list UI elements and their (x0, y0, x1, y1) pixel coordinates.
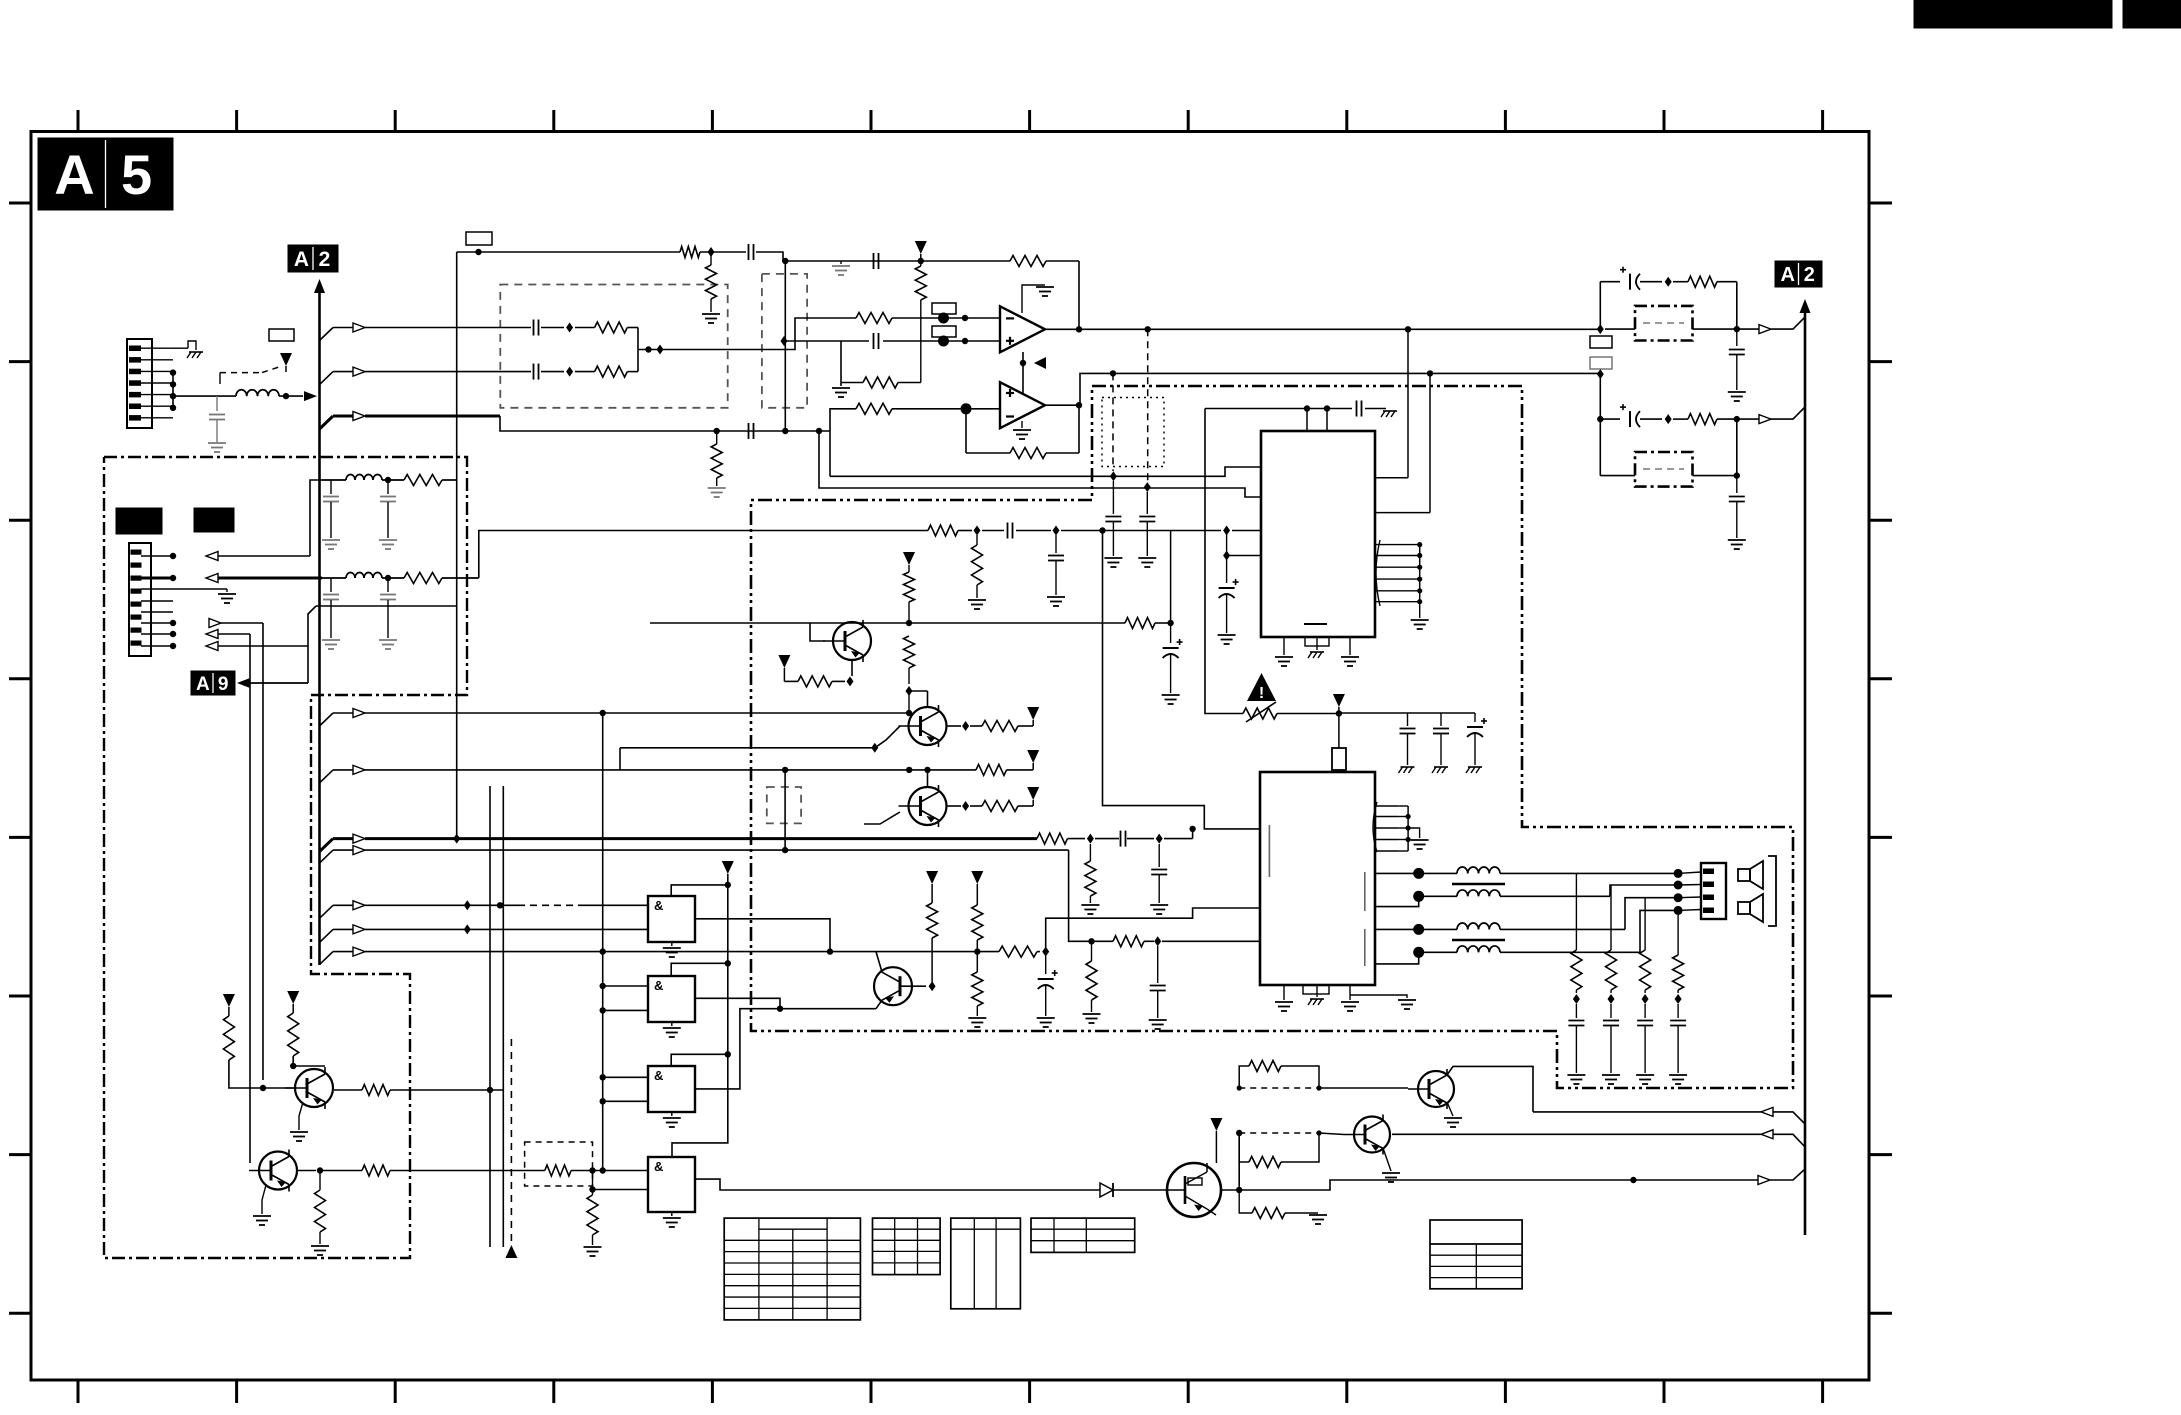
wire to opamp minus (638, 318, 856, 355)
transistor Q4 (874, 967, 926, 1005)
wire caps rail (1339, 712, 1475, 714)
resistor R11 (928, 525, 972, 536)
vertical link x=1170 (1170, 531, 1172, 624)
capacitor C21 (1728, 476, 1746, 549)
supply arrow (287, 991, 299, 1013)
sheet label A5 (38, 138, 173, 210)
resistor R20 (1037, 833, 1068, 844)
J2 pin6 wire (141, 619, 263, 1081)
J2 pin3 ground (141, 589, 236, 603)
wire row 4 (320, 846, 1114, 945)
diamond node (1665, 277, 1672, 287)
vertical link (782, 770, 788, 853)
diamond node (1597, 369, 1604, 379)
wire row A from bus (320, 323, 532, 341)
transistor Q8 (1408, 1069, 1454, 1109)
svg-text:2: 2 (319, 248, 331, 271)
gate3 input stub (600, 1074, 649, 1104)
resistor R18 (404, 573, 479, 584)
IC1 second left pin (1223, 531, 1261, 584)
wire to U4 upper (1046, 908, 1260, 952)
wire A9 spine (308, 606, 457, 646)
connector J2 (129, 543, 151, 656)
warning triangle (1247, 673, 1276, 702)
Q3 collector out (947, 801, 982, 811)
line out 1 (1533, 1107, 1805, 1124)
transistor Q9 (1344, 1115, 1390, 1155)
J2 pin2 wire (thick) (141, 574, 322, 583)
wire U2 output (1045, 370, 1600, 405)
G2 strobe wire (671, 963, 728, 976)
arrow out R (1759, 407, 1805, 424)
wire row 6 (320, 924, 649, 942)
lower branch (1597, 374, 1620, 422)
Q5 emitter ground (290, 1102, 308, 1141)
capacitor C10 (982, 523, 1051, 539)
resistor R17 (404, 475, 457, 486)
resistor R24 (982, 801, 1033, 812)
wire J1 output (173, 395, 303, 397)
diamond node (1053, 526, 1060, 536)
supply arrow into U4 (1333, 694, 1345, 748)
shield dotted box (1102, 398, 1164, 467)
wire to row1 (908, 691, 910, 713)
svg-text:A: A (294, 248, 309, 271)
wire (1068, 838, 1120, 840)
table T2 (873, 1218, 941, 1275)
audio region boundary (dash-dot-dot) (751, 386, 1793, 1088)
wire row C to U2 minus (830, 409, 856, 431)
IC U3 (1261, 431, 1375, 637)
op-amp U1 (1000, 306, 1045, 352)
G3 output wire (695, 1009, 876, 1089)
capacitor C25 (379, 578, 397, 649)
resistor R6 (575, 366, 638, 377)
power transistor Q7 (1167, 1163, 1221, 1217)
bias feed line (1205, 409, 1243, 714)
diamond node (1156, 834, 1163, 844)
wire row E to U3 pin2 (819, 431, 1261, 497)
table T5 (1430, 1220, 1522, 1289)
wire to A9 (307, 646, 309, 683)
J2 pin8 wire (141, 642, 308, 651)
value box VB4 (932, 326, 956, 337)
capacitor C16 (1432, 713, 1449, 773)
capacitor C19 (1728, 329, 1746, 401)
svg-text:A: A (196, 674, 210, 695)
dashed drop x=1147 (1147, 329, 1149, 482)
supply chain x=909 (903, 552, 915, 623)
supply arrow (778, 655, 790, 681)
ground G3 (663, 1112, 681, 1127)
dashed drop x=1113 (1112, 373, 1114, 471)
capacitor C23 (379, 480, 397, 549)
wire row 2 (320, 765, 977, 783)
resistor R29 (1113, 936, 1154, 947)
capacitor C9 (1138, 492, 1156, 567)
op-amp U2 (1000, 382, 1045, 428)
capacitor C4 (534, 320, 565, 336)
svg-text:!: ! (1259, 685, 1264, 702)
vertical spine x=457 (453, 252, 460, 844)
filter FL1 (1635, 306, 1693, 341)
supply chain R25 (926, 871, 938, 981)
output inductor L5 (1424, 946, 1640, 952)
J2 pin5 wire (141, 611, 173, 613)
capacitor C13 electrolytic (1162, 623, 1183, 704)
supply chain R26 (971, 871, 983, 972)
resistor R13 (1125, 618, 1155, 629)
decoupling C14 (1357, 401, 1398, 418)
bias pointer (1020, 352, 1046, 393)
diamond node (1665, 414, 1672, 424)
label A9 (191, 671, 235, 695)
vertical to bias (840, 341, 842, 386)
ground at U1 (1022, 285, 1054, 313)
table T3 (951, 1218, 1021, 1309)
dashed box group 1 (500, 285, 727, 408)
resistor R1 (680, 247, 700, 258)
diamond node (1110, 471, 1117, 481)
wire to U4 (1164, 826, 1196, 839)
filter FL2 (1635, 452, 1693, 487)
vertical pair x=503 (502, 786, 504, 1247)
U3 right pin a (1375, 329, 1408, 478)
Q5 output (334, 1089, 362, 1091)
redacted box 1 (116, 508, 162, 534)
resistor R19 (976, 764, 1033, 775)
resistor R30 (223, 1016, 294, 1091)
Q6 emitter ground (253, 1185, 271, 1225)
speaker bracket (1768, 856, 1776, 926)
diamond node (566, 367, 573, 377)
diamond node (1597, 324, 1604, 334)
supply arrow (1027, 750, 1039, 770)
capacitor C28 electrolytic (1037, 956, 1058, 1027)
ground G1 (663, 942, 681, 957)
gate4 input stub (589, 1186, 648, 1192)
speaker icon 2 (1738, 894, 1763, 922)
J2 pin7 wire (141, 630, 250, 1164)
bottom tick marks (78, 1380, 1823, 1403)
resistor R21 to ground (1081, 844, 1099, 914)
supply arrow (223, 994, 235, 1016)
resistor R15 (1673, 276, 1737, 329)
table T4 (1031, 1218, 1135, 1252)
resistor R36b to ground (584, 1171, 602, 1257)
IC U4 (1260, 772, 1375, 985)
capacitor C15 (1399, 713, 1416, 773)
wire row 3 (thick) (320, 834, 1038, 852)
resistor R16 (1673, 414, 1759, 425)
load RC chain 3 (1636, 898, 1654, 1084)
chassis ground at J1 (173, 341, 203, 358)
supply arrow (1027, 787, 1039, 806)
feedback resistor R10 (966, 402, 1082, 459)
capacitor C1 (209, 396, 225, 443)
svg-text:2: 2 (1804, 264, 1815, 286)
line out 3 (1239, 1169, 1805, 1190)
vertical pair x=490 (489, 786, 491, 1247)
diamond node (708, 247, 715, 257)
net A2 right bus (1800, 299, 1811, 1235)
capacitor C26 (1121, 831, 1155, 847)
wire through FL2 (1600, 419, 1740, 479)
line out 2 (1392, 1130, 1805, 1147)
resistor R23 (982, 721, 1033, 732)
J2 pin1 wire (141, 480, 322, 561)
U4 aux pins to ground (1373, 802, 1429, 852)
resistor R31 (288, 1013, 325, 1069)
capacitor C8 (1104, 481, 1122, 567)
label A2 right (1775, 261, 1822, 287)
supply arrow (1027, 707, 1039, 726)
resistor R38 dashed pair B (1239, 1130, 1321, 1167)
diamond node (1087, 834, 1094, 844)
load RC chain 1 (1567, 873, 1585, 1084)
ground C1 (208, 443, 226, 452)
vertical spine x=785 (784, 258, 786, 431)
pull-up arrow (672, 861, 734, 1157)
capacitor C24 (322, 578, 340, 649)
diamond node (1042, 947, 1049, 957)
Q1 emitter link (851, 660, 853, 676)
resistor R12 to ground (968, 535, 986, 609)
label A2 left (288, 245, 338, 272)
load RC chain 4 (1669, 910, 1687, 1084)
black header bar 1 (1914, 0, 2112, 28)
connector J1 (127, 339, 173, 428)
capacitor C6 (749, 423, 754, 439)
value box VB3 (932, 303, 956, 314)
wire row D to U3 pin1 (830, 467, 1261, 476)
black header bar 2 (2123, 0, 2181, 28)
right tick marks (1869, 203, 1892, 1313)
Q4 collector link (876, 952, 882, 972)
feedback resistor R4 (1010, 256, 1079, 330)
resistor R5 (575, 322, 638, 333)
ground G4 (663, 1212, 681, 1227)
speaker wire 4 (1640, 906, 1701, 952)
Q8 collector wire (1447, 1066, 1533, 1112)
resistor R33 (362, 1165, 606, 1176)
capacitor C20 electrolytic (1620, 404, 1662, 427)
ground tap (832, 261, 850, 275)
svg-text:A: A (54, 143, 94, 206)
and-gate G2 (648, 976, 695, 1022)
wire row 5 (320, 900, 649, 918)
resistor R27 to ground (968, 972, 986, 1027)
output inductor L4 (1424, 923, 1625, 940)
resistor R28 (977, 946, 1040, 957)
resistor R37 dashed pair A (1237, 1061, 1322, 1091)
wire row 1 (320, 709, 913, 727)
Q2 top link (909, 691, 928, 707)
supply arrow V1 (280, 353, 292, 372)
U4 top pin box (1332, 748, 1346, 770)
value box VB2 (466, 232, 492, 245)
capacitor C5 (534, 364, 565, 380)
and-gate G4 (648, 1157, 695, 1212)
diamond node (566, 323, 573, 333)
capacitor C27 to ground (1150, 844, 1168, 914)
speaker wire 3 (1625, 893, 1701, 929)
ground (832, 388, 850, 397)
and-gate G1 (648, 896, 695, 942)
Q3 base wire (864, 812, 900, 824)
wire row F (479, 531, 928, 579)
capacitor C29 to ground (1149, 946, 1167, 1029)
svg-text:9: 9 (218, 674, 229, 695)
wire top chain (457, 249, 1079, 264)
Q2 collector out (947, 721, 982, 731)
value box VB1 (269, 329, 294, 341)
capacitor C2 (749, 244, 754, 260)
transistor Q5 (285, 1067, 333, 1109)
capacitor C3 (874, 253, 879, 269)
G1 strobe wire (671, 885, 728, 896)
U3 right pin bus to ground (1375, 540, 1429, 629)
Q6 output (298, 1167, 362, 1173)
transistor Q2 (899, 705, 947, 747)
LC row 2 (322, 573, 404, 582)
variable resistor RV1 (1243, 702, 1342, 722)
transistor Q3 (899, 785, 947, 827)
wire to Q9 (1319, 1133, 1344, 1135)
Q1 base wire (810, 623, 825, 641)
diamond node (1223, 526, 1230, 536)
U3 right pin b (1375, 373, 1430, 512)
resistor R35 in dashed box (525, 1142, 648, 1186)
U3 bottom grounds (1275, 637, 1359, 666)
wire plus input (784, 336, 1000, 347)
wire G4 output (695, 1179, 1100, 1190)
svg-text:&: & (654, 898, 663, 913)
inductor L1 (236, 390, 279, 396)
speaker icon 1 (1738, 861, 1763, 889)
supply arrow V2 (915, 241, 927, 261)
border frame (31, 132, 1869, 1381)
upper branch (1600, 282, 1620, 329)
resistor R32 (362, 1085, 503, 1096)
wire row F drop to U4 (1103, 531, 1261, 829)
wire through FL1 (1605, 326, 1759, 332)
arrow out L (1759, 317, 1805, 334)
capacitor C17 electrolytic (1466, 713, 1487, 773)
Q4 emitter link (876, 1000, 882, 1009)
value box VB6 (1590, 357, 1612, 369)
junction dots J1 (170, 369, 176, 411)
LC row 1 (322, 475, 404, 484)
resistor R22 (784, 676, 853, 687)
dashed box group 2 (762, 274, 807, 408)
resistor R14 (904, 636, 915, 684)
diamond node (906, 686, 913, 696)
arrow into A9 (237, 678, 308, 688)
Q7 out node (1221, 1130, 1242, 1193)
value box VB5 (1590, 336, 1612, 348)
diamond node (1144, 482, 1151, 492)
wire row 7 (320, 947, 981, 1170)
svg-text:A: A (1780, 264, 1794, 286)
resistor R2 to ground (702, 252, 720, 323)
svg-text:&: & (654, 1068, 663, 1083)
ground at U2 (1013, 421, 1031, 439)
wire row1 drop (602, 713, 604, 952)
output inductor L2 (1424, 867, 1540, 884)
U4 bottom grounds (1275, 985, 1416, 1011)
wire row B from bus (320, 367, 532, 385)
left tick marks (9, 203, 31, 1313)
top tick marks (78, 110, 1823, 132)
net A2 left bus (314, 279, 325, 965)
wire VCC top (1205, 405, 1352, 431)
ground G2 (663, 1022, 681, 1037)
digital region boundary (dash-dot) (104, 457, 467, 1258)
connector J3 speakers (1701, 863, 1726, 919)
dashed pull line (505, 1039, 517, 1258)
diamond node (974, 526, 981, 536)
G2 output wire (695, 998, 783, 1012)
redacted box 2 (194, 508, 234, 532)
U4 output pins (1375, 868, 1424, 964)
Q8 emitter ground (1444, 1102, 1462, 1127)
capacitor C18 electrolytic (1620, 267, 1662, 290)
svg-text:&: & (654, 1159, 663, 1174)
wire to Q8 (1319, 1087, 1408, 1089)
speaker wire 1 (1540, 869, 1701, 878)
load RC chain 2 (1602, 885, 1620, 1084)
capacitor C7 (874, 333, 879, 349)
dashed link wire (220, 366, 282, 384)
resistor R3 (915, 261, 926, 383)
supply arrow Q7 (1210, 1118, 1222, 1163)
output inductor L3 (1424, 890, 1610, 896)
Q3 top link (924, 767, 930, 787)
wire row C from bus (thick) (320, 412, 831, 435)
Q4 base diamond (929, 981, 936, 991)
junction column (637, 328, 639, 372)
vertical x=830 to row D (829, 431, 831, 476)
table T1 (724, 1218, 860, 1320)
resistor R36 to ground (1239, 1190, 1327, 1224)
G1 output wire (695, 919, 833, 955)
transistor Q6 (249, 1150, 297, 1192)
capacitor C22 (322, 480, 340, 549)
wire to U4 pin (1162, 940, 1260, 942)
resistor R40 to ground (708, 431, 726, 497)
wire U1 output (1045, 326, 1600, 332)
dashed box small near gates (767, 787, 801, 823)
Q9 emitter ground (1382, 1148, 1400, 1182)
capacitor C12 electrolytic (1218, 579, 1239, 644)
junction dot (906, 620, 912, 626)
Q2 base wire (620, 726, 900, 770)
resistor R39 to ground (1083, 941, 1101, 1023)
resistor R34 to ground (311, 1171, 329, 1256)
diamond node (1154, 936, 1161, 946)
diode D1 (1100, 1183, 1167, 1197)
diamond node (781, 336, 788, 346)
gate2 input stub (600, 983, 649, 1014)
transistor Q1 (823, 620, 871, 662)
resistor R7 (856, 313, 1000, 324)
G3 strobe wire (671, 1054, 728, 1066)
wire y=623 (650, 620, 1174, 626)
resistor R8 (841, 377, 921, 388)
node dot and arrow to A2 bus (283, 391, 317, 401)
svg-text:5: 5 (121, 143, 152, 206)
